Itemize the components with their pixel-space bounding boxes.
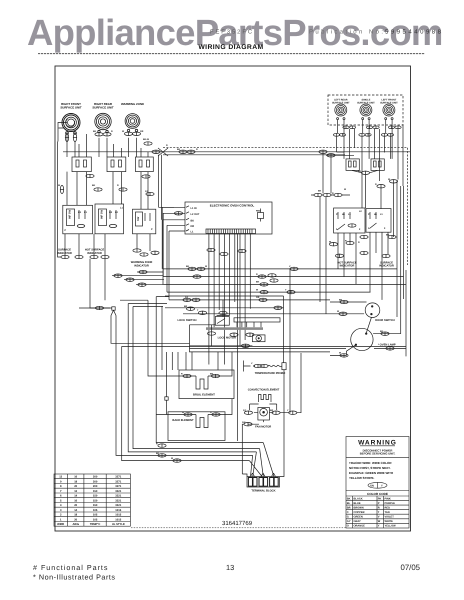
- svg-text:BK: BK: [380, 330, 384, 333]
- label temperature probe: [255, 372, 286, 375]
- svg-text:PURPLE: PURPLE: [385, 502, 396, 505]
- svg-text:R: R: [196, 148, 198, 151]
- svg-text:3321: 3321: [115, 490, 121, 493]
- svg-text:150: 150: [93, 504, 98, 507]
- svg-text:13: 13: [59, 476, 62, 479]
- limiter box left: [346, 159, 359, 171]
- svg-text:W: W: [344, 188, 347, 191]
- ovals below switch boxes: [360, 235, 396, 239]
- lock wires: [190, 300, 407, 352]
- convection motor M2: [254, 408, 274, 421]
- EOC box U1: [185, 202, 272, 234]
- surface switch box right: [366, 209, 391, 233]
- svg-text:BR: BR: [347, 507, 351, 510]
- svg-text:200: 200: [93, 480, 98, 483]
- right distribution rows: [163, 269, 406, 314]
- svg-text:14: 14: [74, 509, 77, 512]
- svg-text:W: W: [388, 178, 391, 181]
- svg-text:L1 IN: L1 IN: [191, 207, 197, 210]
- svg-text:Y: Y: [378, 525, 380, 528]
- center feed verticals: [120, 300, 218, 397]
- svg-text:P: P: [65, 229, 67, 232]
- left entry ovals row: [311, 154, 350, 314]
- junction node square: [165, 397, 168, 415]
- svg-text:INF SW: INF SW: [101, 209, 104, 219]
- surface unit coil: single: [360, 104, 372, 120]
- svg-text:105: 105: [93, 518, 98, 521]
- svg-text:SW: SW: [137, 216, 140, 221]
- svg-text:BROIL ELEMENT: BROIL ELEMENT: [193, 394, 215, 397]
- oven lamp: [351, 328, 373, 350]
- surface unit coil: right front: [62, 114, 80, 135]
- tracer example symbol GN-Y: [368, 482, 387, 488]
- limiter box 1: [72, 157, 91, 172]
- svg-text:GREEN: GREEN: [354, 516, 363, 519]
- dashed enclosure left/single/right units: [328, 95, 403, 125]
- svg-text:W: W: [329, 241, 332, 244]
- svg-text:105: 105: [93, 514, 98, 517]
- terminal block: [247, 473, 280, 487]
- svg-text:DOOR SWITCH: DOOR SWITCH: [375, 319, 394, 322]
- label single: [357, 99, 375, 105]
- ovals on rows: [183, 267, 298, 315]
- svg-text:Y: Y: [381, 484, 383, 487]
- svg-text:2: 2: [60, 514, 62, 517]
- svg-text:FEF352FC: FEF352FC: [210, 29, 252, 36]
- svg-text:7: 7: [60, 490, 62, 493]
- svg-text:FAN MOTOR: FAN MOTOR: [255, 425, 271, 428]
- surface unit coil: warming zone: [125, 114, 140, 132]
- infinite switch B: [95, 204, 124, 234]
- limiter box 2: [107, 157, 126, 172]
- svg-text:BR: BR: [184, 305, 188, 308]
- svg-text:SURFACE UNIT: SURFACE UNIT: [60, 105, 82, 109]
- ovals below limiters: [60, 174, 154, 196]
- svg-text:3321: 3321: [115, 504, 121, 507]
- label convection element: [248, 389, 280, 392]
- svg-text:YELLOW STRIPE.: YELLOW STRIPE.: [349, 476, 375, 480]
- wire code micro labels: [58, 130, 391, 460]
- surface unit coil: left front: [383, 104, 395, 120]
- svg-text:TAN: TAN: [385, 511, 390, 514]
- svg-text:07/05: 07/05: [401, 563, 421, 572]
- svg-text:WARNING: WARNING: [358, 440, 397, 447]
- probe feed wires: [283, 296, 286, 441]
- svg-text:GRAY: GRAY: [354, 520, 362, 523]
- svg-text:H1: H1: [374, 213, 378, 216]
- svg-text:H1: H1: [342, 213, 346, 216]
- svg-text:T: T: [378, 511, 380, 514]
- limiter box 3: [136, 157, 154, 172]
- svg-text:2: 2: [359, 228, 361, 231]
- footer: date: [401, 563, 421, 572]
- color code table: [346, 496, 409, 528]
- svg-text:L1: L1: [380, 213, 383, 216]
- color code divider: [346, 490, 409, 492]
- ovals below limiters: [352, 170, 398, 208]
- svg-text:INF SW: INF SW: [69, 209, 72, 219]
- svg-text:1015: 1015: [115, 518, 121, 521]
- broil element heater: [181, 352, 232, 389]
- svg-text:R: R: [166, 144, 168, 147]
- svg-text:16: 16: [74, 499, 77, 502]
- convection element heater: [250, 395, 277, 411]
- model number text: [210, 29, 252, 36]
- label terminal block: [251, 490, 275, 493]
- svg-text:3271: 3271: [115, 480, 121, 483]
- svg-text:18: 18: [74, 480, 77, 483]
- svg-text:20: 20: [74, 485, 77, 488]
- svg-text:RED: RED: [256, 210, 261, 213]
- svg-text:P: P: [378, 502, 380, 505]
- label right front surface unit: [60, 102, 82, 109]
- svg-text:L1: L1: [348, 213, 351, 216]
- svg-text:L1: L1: [191, 231, 195, 234]
- ovals row2: [333, 133, 393, 136]
- svg-text:INDICATOR: INDICATOR: [379, 265, 394, 268]
- svg-text:W: W: [122, 130, 125, 133]
- svg-text:316417769: 316417769: [222, 520, 253, 527]
- svg-text:BLUE: BLUE: [354, 502, 361, 505]
- ovals on EOC drops: [207, 248, 246, 256]
- svg-text:TERMINAL BLOCK: TERMINAL BLOCK: [251, 490, 275, 493]
- svg-text:R: R: [378, 507, 380, 510]
- svg-text:BL: BL: [347, 502, 351, 505]
- wire table grid: [54, 474, 130, 526]
- EOC input oval: [174, 211, 182, 215]
- svg-text:1015: 1015: [115, 509, 121, 512]
- svg-text:WHITE: WHITE: [385, 520, 394, 523]
- svg-text:PK: PK: [378, 497, 382, 500]
- label broil element: [193, 394, 215, 397]
- svg-text:Y: Y: [285, 288, 287, 291]
- ovals on main feed: [144, 142, 195, 154]
- svg-text:105: 105: [93, 509, 98, 512]
- svg-text:R: R: [256, 273, 258, 276]
- title WIRING DIAGRAM: [198, 44, 263, 51]
- svg-text:* Non-Illustrated Parts: * Non-Illustrated Parts: [33, 573, 115, 582]
- label fan motor: [255, 425, 271, 428]
- main feed wire horizontal: [63, 148, 410, 155]
- surface unit coil: left rear: [335, 104, 347, 120]
- svg-text:20: 20: [74, 518, 77, 521]
- wires coil2: [99, 138, 122, 157]
- label color code: [367, 492, 388, 496]
- svg-text:GN: GN: [370, 484, 374, 487]
- warming ind ovals: [133, 249, 159, 257]
- lock cam bar: [234, 318, 280, 328]
- svg-text:V: V: [378, 516, 380, 519]
- footer: page number: [226, 563, 234, 572]
- svg-text:NOTED FIRST, STRIPE NEXT.: NOTED FIRST, STRIPE NEXT.: [349, 466, 391, 470]
- svg-text:O: O: [347, 525, 349, 528]
- svg-text:BK-W: BK-W: [143, 138, 150, 141]
- svg-text:BLACK: BLACK: [354, 497, 363, 500]
- svg-text:BK: BK: [177, 148, 181, 151]
- svg-text:LOCK SWITCH: LOCK SWITCH: [178, 319, 197, 322]
- crossing junction X: [158, 148, 168, 156]
- svg-text:AWG: AWG: [72, 523, 78, 526]
- svg-text:W: W: [378, 520, 381, 523]
- svg-text:COLOR CODE: COLOR CODE: [367, 492, 388, 496]
- svg-text:INDICATOR: INDICATOR: [340, 265, 355, 268]
- svg-text:200: 200: [93, 485, 98, 488]
- label electronic oven control: [210, 204, 255, 208]
- svg-text:GY: GY: [185, 296, 189, 299]
- svg-text:GY: GY: [347, 520, 351, 523]
- svg-text:RED: RED: [385, 507, 391, 510]
- svg-text:SURFACE UNIT: SURFACE UNIT: [92, 105, 114, 109]
- warning divider: [346, 456, 409, 458]
- svg-text:W: W: [256, 288, 259, 291]
- svg-text:BROWN: BROWN: [354, 507, 364, 510]
- svg-text:DR: DR: [191, 225, 195, 228]
- svg-text:ORANGE: ORANGE: [354, 525, 366, 528]
- bake element heater: [168, 399, 232, 428]
- svg-text:L2 OUT: L2 OUT: [191, 213, 200, 216]
- svg-text:BK: BK: [256, 281, 260, 284]
- svg-text:SURFACE UNIT: SURFACE UNIT: [380, 101, 398, 104]
- svg-text:3321: 3321: [115, 495, 121, 498]
- svg-text:WIRING DIAGRAM: WIRING DIAGRAM: [198, 44, 263, 51]
- svg-text:TRACER WIRE: WIRE COLOR: TRACER WIRE: WIRE COLOR: [349, 461, 392, 465]
- surface unit coil: right rear: [95, 113, 111, 132]
- svg-text:R: R: [111, 130, 113, 133]
- EOC pin rows: [159, 155, 200, 234]
- svg-text:R: R: [375, 183, 377, 186]
- svg-text:L1: L1: [120, 207, 123, 210]
- svg-text:16: 16: [74, 476, 77, 479]
- svg-text:OR: OR: [140, 130, 144, 133]
- svg-text:LOCK MOTOR: LOCK MOTOR: [218, 337, 236, 340]
- svg-text:BK: BK: [358, 170, 362, 173]
- label door switch: [375, 319, 394, 322]
- svg-text:OR: OR: [256, 296, 260, 299]
- lock latch band: [206, 327, 263, 330]
- svg-text:G: G: [347, 516, 349, 519]
- svg-text:EXAMPLE: GREEN WIRE WITH: EXAMPLE: GREEN WIRE WITH: [349, 471, 393, 475]
- wires switches to indicator ovals: [65, 234, 150, 308]
- warning subtitle: [360, 448, 396, 455]
- label oven lamp: [378, 344, 396, 347]
- broil element box: [179, 370, 234, 399]
- ground wire G: [242, 441, 284, 477]
- svg-text:9: 9: [60, 480, 62, 483]
- bake element box: [168, 412, 225, 441]
- label lock motor: [218, 337, 236, 340]
- svg-text:BK: BK: [92, 184, 96, 187]
- svg-text:150: 150: [93, 499, 98, 502]
- right edge verticals: [394, 148, 408, 357]
- lock switch assembly: [215, 311, 229, 325]
- label warming zone: [121, 102, 144, 106]
- svg-text:INDICATOR: INDICATOR: [134, 264, 149, 267]
- svg-text:GN: GN: [242, 421, 246, 424]
- svg-text:WIRE: WIRE: [57, 523, 64, 526]
- svg-text:8: 8: [60, 485, 62, 488]
- feed entry ovals: [319, 150, 354, 157]
- svg-text:L2: L2: [115, 211, 118, 214]
- svg-text:3271: 3271: [115, 476, 121, 479]
- tracer wire paragraph: [349, 461, 393, 480]
- label hot surface indicator right: [337, 261, 356, 267]
- wires units to limiters: [337, 120, 404, 208]
- svg-text:3: 3: [60, 509, 62, 512]
- mid horizontals: [79, 272, 164, 308]
- svg-text:INDICATOR: INDICATOR: [57, 252, 72, 255]
- limiter box right: [371, 159, 384, 171]
- svg-text:BK: BK: [93, 130, 97, 133]
- svg-text:18: 18: [74, 514, 77, 517]
- wires switch boxes down: [290, 188, 388, 413]
- ovals under dashed box row1: [343, 126, 401, 129]
- label bake element: [172, 419, 194, 422]
- svg-text:YELLOW: YELLOW: [385, 525, 397, 528]
- wire table text: [57, 476, 125, 526]
- part number: [222, 520, 253, 527]
- label surface indicator: [57, 249, 72, 255]
- mid junction ovals: [95, 270, 147, 310]
- svg-text:3: 3: [384, 227, 386, 230]
- long left wire L1: [58, 142, 61, 258]
- indicator ovals right: [329, 241, 390, 258]
- left bundle verticals: [111, 297, 406, 461]
- svg-text:H1: H1: [78, 211, 82, 214]
- diagram frame: [55, 66, 411, 531]
- svg-text:L1: L1: [84, 211, 87, 214]
- label right rear surface unit: [92, 102, 114, 109]
- EOC drop wires: [209, 234, 250, 442]
- svg-text:3321: 3321: [115, 499, 121, 502]
- svg-text:1: 1: [60, 518, 62, 521]
- svg-text:BK: BK: [347, 497, 351, 500]
- svg-text:BK: BK: [186, 265, 190, 268]
- connector ovals under coils: [65, 132, 140, 142]
- svg-text:R: R: [210, 411, 212, 414]
- door switch: [365, 303, 380, 318]
- indicator oval row: [61, 255, 109, 259]
- bundle elbow ovals: [158, 444, 181, 463]
- svg-text:BK: BK: [386, 234, 390, 237]
- svg-text:P: P: [151, 228, 153, 231]
- svg-text:CONVECTION ELEMENT: CONVECTION ELEMENT: [248, 389, 280, 392]
- svg-text:3271: 3271: [115, 485, 121, 488]
- X junction node: [111, 307, 116, 316]
- svg-text:V: V: [251, 362, 253, 365]
- svg-text:C: C: [347, 511, 349, 514]
- svg-text:13: 13: [226, 563, 234, 572]
- svg-text:# Functional Parts: # Functional Parts: [33, 563, 108, 572]
- svg-text:WARMING ZONE: WARMING ZONE: [121, 102, 144, 106]
- wires coil3: [129, 138, 149, 157]
- svg-text:PINK: PINK: [385, 497, 391, 500]
- svg-text:6: 6: [60, 495, 62, 498]
- svg-text:BK: BK: [210, 373, 214, 376]
- EOC relay: [256, 209, 264, 222]
- wires coil1 to limiter/switch: [58, 123, 148, 210]
- warning title: [358, 440, 397, 447]
- label left rear: [332, 99, 350, 105]
- fan wire and oval: [242, 420, 263, 474]
- svg-text:SURFACE UNIT: SURFACE UNIT: [332, 101, 350, 104]
- svg-text:5995440988: 5995440988: [385, 29, 442, 36]
- svg-text:R: R: [181, 373, 183, 376]
- svg-text:R: R: [358, 241, 360, 244]
- svg-text:12: 12: [74, 490, 77, 493]
- svg-text:BK: BK: [191, 219, 195, 222]
- svg-text:INDICATOR: INDICATOR: [87, 252, 102, 255]
- label lock switch: [178, 319, 197, 322]
- footer dashed line: [131, 527, 346, 529]
- svg-text:GY: GY: [243, 409, 247, 412]
- header rule: [38, 53, 425, 55]
- svg-text:BK: BK: [318, 190, 322, 193]
- label warming zone indicator: [131, 261, 153, 267]
- svg-text:SURFACE UNIT: SURFACE UNIT: [357, 101, 375, 104]
- label left front: [380, 99, 398, 105]
- svg-text:TEMP°C: TEMP°C: [90, 523, 101, 526]
- EOC pin wires left elbows: [162, 207, 178, 300]
- svg-text:UL STYLE: UL STYLE: [112, 523, 125, 526]
- svg-text:BK: BK: [339, 298, 343, 301]
- footer: functional parts note: [33, 563, 115, 582]
- svg-text:BR: BR: [270, 409, 274, 412]
- svg-text:L2: L2: [359, 210, 362, 213]
- label hot surface indicator: [85, 249, 104, 255]
- svg-text:4: 4: [60, 504, 62, 507]
- label surface indicator right: [379, 261, 394, 267]
- svg-text:1015: 1015: [115, 514, 121, 517]
- warming switch C: [133, 209, 156, 234]
- svg-text:R: R: [117, 184, 119, 187]
- svg-text:GY: GY: [145, 190, 149, 193]
- publication number: [309, 29, 442, 36]
- svg-text:COPPER: COPPER: [354, 511, 365, 514]
- convection motor ovals: [244, 353, 301, 415]
- svg-text:Y: Y: [287, 409, 289, 412]
- EOC connector strip: [206, 229, 256, 234]
- svg-text:20: 20: [74, 504, 77, 507]
- svg-text:W: W: [205, 265, 208, 268]
- svg-text:150: 150: [93, 495, 98, 498]
- svg-text:14: 14: [74, 495, 77, 498]
- svg-text:150: 150: [93, 490, 98, 493]
- watermark AppliancePartsPros.com: [27, 12, 443, 53]
- svg-text:BK: BK: [156, 452, 160, 455]
- svg-text:200: 200: [93, 476, 98, 479]
- lock motor M1: [252, 335, 265, 342]
- surface switch box left: [334, 208, 365, 233]
- svg-text:BAKE ELEMENT: BAKE ELEMENT: [172, 419, 194, 422]
- oven lamp wires: [330, 332, 401, 357]
- svg-text:BEFORE SERVICING UNIT.: BEFORE SERVICING UNIT.: [360, 452, 396, 456]
- svg-text:TEMPERATURE PROBE: TEMPERATURE PROBE: [255, 372, 286, 375]
- svg-text:5: 5: [60, 499, 62, 502]
- infinite switch A: [63, 205, 93, 234]
- svg-text:ELECTRONIC OVEN CONTROL: ELECTRONIC OVEN CONTROL: [210, 204, 255, 208]
- door switch wires: [330, 300, 371, 333]
- bundle drops to terminal block: [249, 443, 274, 477]
- temperature probe: [244, 361, 287, 372]
- svg-text:VIOLET: VIOLET: [385, 516, 395, 519]
- svg-text:H2: H2: [109, 211, 113, 214]
